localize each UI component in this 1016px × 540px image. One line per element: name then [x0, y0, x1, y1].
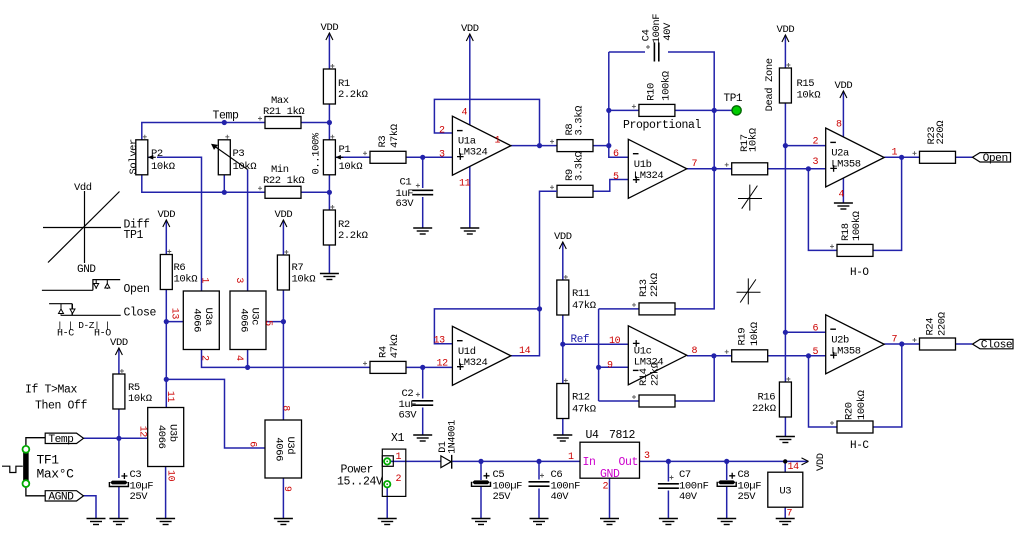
svg-text:GND: GND: [600, 468, 620, 481]
svg-text:2: 2: [396, 474, 402, 485]
svg-text:8: 8: [280, 405, 291, 411]
op-amp U2b: [826, 315, 885, 374]
resistor R11: [557, 280, 569, 315]
op-amp U1a: [452, 116, 511, 175]
capacitor C4: [654, 43, 658, 62]
label R24 220 (vertical): [924, 312, 948, 336]
junction R10 right / TP1 / column: [712, 108, 717, 113]
svg-text:3: 3: [233, 277, 244, 283]
wire U3a pin13 stub: [166, 321, 183, 323]
svg-text:15..24V: 15..24V: [337, 476, 383, 489]
wire U2a output to R23: [884, 156, 919, 158]
svg-text:P3: P3: [233, 148, 245, 160]
ground below U3 pin7: [776, 519, 795, 525]
label C4 100nF 40V (vertical): [641, 14, 674, 44]
svg-text:10: 10: [609, 336, 621, 347]
junction U1b output / R17 / R13 column: [712, 166, 717, 171]
svg-text:4: 4: [839, 190, 845, 201]
wire VDD to U2a pin8: [842, 104, 844, 137]
svg-text:LM358: LM358: [831, 159, 861, 171]
svg-text:R6: R6: [174, 262, 186, 274]
svg-text:8: 8: [692, 346, 698, 357]
wire VDD to R15: [784, 48, 786, 68]
resistor R16: [779, 382, 791, 417]
svg-text:LM358: LM358: [831, 345, 861, 357]
svg-text:10kΩ: 10kΩ: [749, 322, 761, 346]
wire VDD to R6: [165, 233, 167, 255]
wire VDD to R7: [282, 233, 284, 255]
svg-text:220Ω: 220Ω: [937, 312, 949, 336]
resistor R15: [779, 68, 791, 103]
wire U4 GND pin2 to ground: [609, 478, 611, 518]
power VDD above R11: [554, 231, 572, 255]
svg-text:1: 1: [892, 148, 898, 159]
wire U2a pin2 from dead zone tap: [785, 145, 825, 147]
svg-text:3: 3: [439, 149, 445, 160]
junction Temp / R5 / C3: [116, 436, 121, 441]
junction Min row / P3 bottom: [222, 190, 227, 195]
svg-text:12: 12: [437, 359, 449, 370]
svg-text:R22 1kΩ: R22 1kΩ: [263, 175, 304, 187]
svg-text:P2: P2: [151, 148, 163, 160]
svg-text:U3: U3: [779, 486, 791, 498]
wire C3 column: [118, 438, 120, 478]
label R23 220 (vertical): [926, 121, 947, 145]
resistor R2: [323, 210, 335, 245]
wire R11 to Ref to R12: [562, 315, 564, 384]
svg-text:C5: C5: [493, 469, 505, 481]
wire C5 stub: [480, 461, 482, 480]
wire R5 bottom to Temp row: [118, 410, 120, 439]
power VDD above R7: [275, 209, 293, 233]
svg-text:3: 3: [644, 451, 650, 462]
svg-text:C1: C1: [400, 177, 412, 189]
wire AGND flag to ground: [84, 496, 97, 519]
svg-text:22kΩ: 22kΩ: [650, 362, 662, 386]
capacitor C5 (polarized): [472, 473, 491, 487]
ground below R12: [553, 435, 572, 441]
svg-text:220Ω: 220Ω: [935, 121, 947, 145]
wire R23 to Open flag: [956, 156, 973, 158]
junction R10 left / C4 column: [606, 108, 611, 113]
test point TP1: [732, 106, 741, 115]
svg-text:10kΩ: 10kΩ: [233, 161, 257, 173]
resistor R22: [265, 186, 301, 198]
diode D1 1N4001: [441, 455, 452, 469]
label R19 10k (vertical): [736, 322, 761, 346]
annotation Open waveform: [42, 280, 120, 291]
svg-text:U4: U4: [586, 429, 600, 442]
ground below U3b pin10: [156, 519, 175, 525]
svg-text:Open: Open: [983, 153, 1008, 165]
svg-text:3.3kΩ: 3.3kΩ: [573, 151, 585, 181]
svg-text:C7: C7: [679, 469, 691, 481]
wire R7 column to U3d pin8: [282, 290, 284, 420]
ground below R16: [776, 437, 795, 443]
capacitor C2: [412, 401, 433, 405]
op-amp U1d: [452, 326, 511, 385]
resistor R8: [557, 140, 593, 152]
wire U1c output to R19: [687, 355, 732, 357]
wire R9 to U1b pin5: [593, 180, 628, 192]
svg-text:X1: X1: [391, 432, 405, 445]
junction R3 / C1 / U1a pin3: [420, 155, 425, 160]
resistor R18: [837, 244, 873, 256]
junction R6 column / U3b pin11: [164, 377, 169, 382]
wire C7 to ground: [667, 491, 669, 519]
wire C2 bottom to ground: [422, 408, 424, 435]
svg-text:TP1: TP1: [724, 93, 743, 105]
annotation Close waveform: [49, 304, 121, 316]
voltage regulator U4 7812: [580, 442, 640, 478]
svg-text:4066: 4066: [155, 425, 167, 449]
wire C1 junction down: [422, 157, 424, 188]
wire X1 pin1 to D1: [391, 460, 441, 462]
svg-text:7: 7: [692, 159, 698, 170]
wire VDD to R5: [118, 361, 120, 374]
svg-text:H-O: H-O: [850, 267, 869, 279]
svg-text:Ref: Ref: [571, 334, 590, 346]
svg-text:U3b: U3b: [166, 424, 178, 442]
ground below C6: [530, 519, 549, 525]
label R18 100k (vertical): [840, 211, 863, 241]
resistor R5: [113, 374, 125, 409]
label R9 3.3k (vertical): [564, 151, 586, 181]
svg-text:5: 5: [813, 347, 819, 358]
svg-text:9: 9: [281, 486, 292, 492]
svg-text:6: 6: [613, 149, 619, 160]
svg-text:R15: R15: [797, 78, 815, 90]
wire Ref to U1c pin10: [563, 343, 629, 345]
net flag AGND: [45, 491, 83, 504]
svg-text:2: 2: [603, 482, 609, 493]
svg-text:P1: P1: [339, 144, 351, 156]
resistor R19: [732, 350, 768, 362]
svg-text:6: 6: [247, 441, 258, 447]
label R17 10k (vertical): [739, 128, 760, 152]
wire U1a pin11 to ground: [469, 167, 471, 228]
resistor R21: [265, 117, 301, 129]
analog switch U3d (4066): [265, 420, 302, 478]
svg-text:9: 9: [607, 361, 613, 372]
capacitor C6: [529, 482, 550, 486]
svg-text:25V: 25V: [130, 491, 149, 503]
wire C6 stub: [538, 461, 540, 479]
ground below C5: [472, 519, 491, 525]
resistor R3: [370, 151, 406, 163]
svg-text:10kΩ: 10kΩ: [339, 161, 363, 173]
ground below X1: [378, 519, 397, 525]
svg-text:47kΩ: 47kΩ: [389, 335, 401, 359]
power VDD arrow right (rotated): [802, 453, 828, 471]
wire C4 right to right column: [668, 52, 714, 110]
wire U3 pin7 to ground: [784, 507, 786, 519]
svg-text:0..100%: 0..100%: [310, 132, 322, 174]
svg-text:7: 7: [892, 335, 898, 346]
svg-text:10kΩ: 10kΩ: [151, 161, 175, 173]
svg-text:C3: C3: [130, 469, 142, 481]
svg-text:22kΩ: 22kΩ: [752, 403, 776, 415]
svg-text:H-O: H-O: [94, 329, 111, 340]
wire U1d pin13 feedback loop: [434, 309, 539, 344]
wire R19/U2b pin5 column down to R20 loop: [809, 356, 838, 427]
wire U3 pin14 stub: [784, 461, 786, 472]
svg-text:1: 1: [568, 452, 574, 463]
svg-text:47kΩ: 47kΩ: [572, 300, 596, 312]
svg-text:TP1: TP1: [124, 229, 144, 242]
junction Temp row / P3 top: [222, 120, 227, 125]
svg-text:14: 14: [519, 346, 531, 357]
label R8 3.3k (vertical): [564, 106, 586, 136]
svg-text:7812: 7812: [609, 429, 636, 442]
svg-text:4: 4: [233, 355, 244, 361]
junction R4 / C2 / U1d pin12: [420, 365, 425, 370]
ground below AGND: [87, 519, 106, 525]
svg-text:100kΩ: 100kΩ: [856, 390, 868, 420]
resistor R13: [639, 303, 675, 315]
op-amp U1c: [628, 326, 687, 385]
svg-text:11: 11: [459, 179, 471, 190]
resistor R6: [160, 255, 172, 290]
junction R7 column / U3c pin5: [281, 319, 286, 324]
net flag Close: [973, 339, 1014, 351]
svg-text:10kΩ: 10kΩ: [797, 90, 821, 102]
wire R13 right to column: [676, 169, 715, 309]
wire R19 right to U2b pin5: [768, 355, 826, 357]
wire U1d output up to R9: [511, 191, 557, 355]
svg-text:If T>Max: If T>Max: [25, 384, 78, 397]
svg-text:6: 6: [813, 324, 819, 335]
wire R17 right to U2a pin3: [768, 168, 826, 170]
svg-text:R11: R11: [572, 288, 590, 300]
wire U1c pin9 column R13 to R14: [598, 309, 600, 401]
label Solver (vertical): [128, 139, 140, 175]
wire R10 left column up to C4: [608, 52, 610, 146]
junction R19 / U2b pin5 / R20: [806, 353, 811, 358]
svg-text:LM324: LM324: [458, 147, 488, 159]
label R20 100k (vertical): [843, 390, 868, 420]
svg-text:Proportional: Proportional: [623, 119, 702, 132]
wire C8 stub: [726, 461, 728, 480]
wire U3b pin10 to ground: [165, 467, 167, 519]
svg-text:100kΩ: 100kΩ: [851, 211, 863, 241]
wire Temp row P2 top to P3 top to R21: [142, 123, 330, 141]
wire VDD to U1a pin4: [469, 47, 471, 125]
wire U1a output to R8: [511, 145, 557, 147]
svg-text:2: 2: [813, 137, 819, 148]
junction R17 / U2a pin3 / R18: [806, 166, 811, 171]
svg-text:5: 5: [613, 172, 619, 183]
svg-text:12: 12: [137, 426, 148, 438]
svg-text:R7: R7: [292, 262, 304, 274]
label R10 100k (vertical): [646, 71, 673, 101]
resistor R20: [837, 421, 873, 433]
wire R24 to Close flag: [956, 343, 973, 345]
svg-text:2: 2: [439, 126, 445, 137]
svg-text:4066: 4066: [191, 308, 203, 332]
junction C6 on rail: [536, 459, 541, 464]
svg-text:R19: R19: [736, 328, 748, 346]
wire R3 to C1 node to U1a pin3: [406, 156, 452, 158]
svg-text:R10: R10: [646, 83, 658, 101]
analog switch U3b (4066): [148, 408, 184, 467]
ground below C8: [717, 519, 736, 525]
svg-text:100kΩ: 100kΩ: [661, 71, 673, 101]
wire U2a pin4 to ground: [842, 177, 844, 203]
junction U3 pin14 on VDD rail: [783, 459, 787, 463]
resistor R17: [732, 163, 768, 175]
svg-text:2: 2: [199, 355, 210, 361]
wire C3 bottom to ground: [118, 487, 120, 519]
svg-text:1N4001: 1N4001: [447, 420, 458, 454]
svg-text:R24: R24: [924, 318, 936, 336]
svg-text:LM324: LM324: [458, 357, 488, 369]
wire P1 wiper to R3: [335, 156, 370, 158]
svg-text:LM324: LM324: [634, 170, 664, 182]
svg-text:R21 1kΩ: R21 1kΩ: [263, 106, 304, 118]
svg-text:R14: R14: [638, 368, 650, 386]
wire R2 bottom to ground: [328, 245, 330, 273]
power VDD above R1: [321, 22, 339, 46]
junction U2b output / R20 / R24: [899, 341, 904, 346]
junction U1c output / R19 / R14: [711, 353, 716, 358]
annotation transfer-function graph axes: [43, 191, 121, 263]
wire U3c pin5 stub: [266, 321, 284, 323]
svg-text:4066: 4066: [237, 308, 249, 332]
ground below C3: [109, 519, 128, 525]
svg-text:C6: C6: [551, 469, 563, 481]
svg-text:2.2kΩ: 2.2kΩ: [338, 89, 368, 101]
svg-text:R3: R3: [377, 136, 389, 148]
wire U2b pin6 from dead zone tap: [785, 331, 825, 333]
svg-text:10kΩ: 10kΩ: [747, 128, 759, 152]
svg-text:2.2kΩ: 2.2kΩ: [338, 230, 368, 242]
label R3 47k (vertical): [377, 124, 401, 148]
wire C4 left: [609, 51, 645, 53]
wire C1 bottom to ground: [422, 197, 424, 228]
svg-text:4: 4: [462, 108, 468, 119]
junction U1a output / feedback / R8: [537, 143, 542, 148]
svg-text:25V: 25V: [738, 491, 757, 503]
svg-text:63V: 63V: [399, 410, 418, 422]
resistor R23: [920, 151, 956, 163]
svg-text:47kΩ: 47kΩ: [389, 124, 401, 148]
capacitor C7: [658, 484, 679, 488]
wire R14 left: [599, 400, 639, 402]
potentiometer P2: [136, 140, 156, 175]
junction U2a output / R18 / R23: [899, 155, 904, 160]
wire R4 to C2 node to U1d pin12: [406, 366, 452, 368]
wire TF1 top to Temp flag (black): [26, 438, 45, 448]
wire R6 column U3a pin13 U3b pin11: [165, 289, 167, 408]
junction dead zone / U2b pin6 / R16: [783, 330, 788, 335]
svg-text:Close: Close: [124, 307, 157, 320]
IC U3 power block: [768, 472, 803, 507]
capacitor C8 (polarized): [717, 473, 736, 487]
ground below U1a pin11: [460, 228, 479, 234]
svg-text:10: 10: [164, 470, 175, 482]
junction C7 on rail: [666, 459, 671, 464]
resistor R1: [323, 69, 335, 104]
wire U2a pin3 column down to R18 loop: [808, 169, 837, 251]
ground below R2: [320, 274, 339, 280]
svg-text:Vdd: Vdd: [74, 182, 92, 194]
svg-text:Temp: Temp: [48, 434, 74, 446]
ground below U2a pin4: [834, 203, 853, 209]
svg-text:R16: R16: [758, 392, 776, 404]
svg-text:8: 8: [836, 120, 842, 131]
wire P2 wiper stub: [142, 156, 151, 158]
capacitor C1: [412, 190, 433, 194]
svg-text:VDD: VDD: [815, 453, 827, 471]
wire U3b pin11 junction to U3d pin6: [166, 379, 265, 448]
svg-text:22kΩ: 22kΩ: [649, 273, 661, 297]
label R4 47k (vertical): [377, 335, 401, 359]
junction R6 column / U3a pin13: [164, 319, 169, 324]
junction C8 on rail: [724, 459, 729, 464]
svg-text:13: 13: [434, 336, 446, 347]
junction dead zone / U2a pin2: [783, 143, 788, 148]
wire R18 right to output column: [873, 157, 902, 250]
svg-text:U3a: U3a: [202, 308, 214, 326]
thermal fuse TF1: [2, 446, 29, 487]
junction U3a pin2 / U3c pin4 / R4 wire: [245, 365, 250, 370]
wire R10 left junction to R10: [609, 109, 640, 111]
svg-text:U3d: U3d: [284, 437, 296, 455]
svg-text:40V: 40V: [662, 22, 674, 41]
annotation crossed-graph symbol upper: [738, 185, 762, 211]
svg-text:10kΩ: 10kΩ: [174, 274, 198, 286]
wire U3c pin4 stub to junction: [247, 350, 249, 368]
net flag Open: [973, 153, 1011, 165]
junction R8 / U1b pin6 / R10 column: [606, 143, 611, 148]
wire Min row P2 bottom to R22 to P1 bottom: [142, 175, 330, 192]
junction U1c pin9 / R13 / R14: [596, 365, 601, 370]
wire column down to U1b output: [713, 110, 715, 168]
resistor R7: [277, 255, 289, 290]
svg-text:14: 14: [788, 462, 800, 473]
resistor R14: [639, 395, 675, 407]
svg-text:1: 1: [396, 452, 402, 463]
svg-text:Open: Open: [124, 283, 150, 296]
svg-text:Out: Out: [619, 456, 639, 469]
wire U3a pin2 / U3c pin4 row to R4: [202, 350, 371, 368]
wire D1 to U4 In: [452, 460, 580, 462]
power VDD above U1a: [461, 23, 479, 47]
svg-text:GND: GND: [77, 264, 96, 276]
wire dead zone column R15 to R16: [784, 104, 786, 382]
resistor R10: [639, 104, 675, 116]
svg-text:C8: C8: [738, 469, 750, 481]
power VDD above R5: [110, 337, 128, 361]
resistor R4: [370, 361, 406, 373]
svg-text:AGND: AGND: [48, 491, 74, 503]
svg-text:47kΩ: 47kΩ: [572, 404, 596, 416]
svg-text:TF1: TF1: [37, 453, 60, 468]
svg-text:Then Off: Then Off: [35, 400, 88, 413]
wire R12 bottom to ground: [562, 419, 564, 435]
svg-text:10kΩ: 10kΩ: [128, 393, 152, 405]
label 0..100% (vertical): [310, 132, 322, 174]
junction C5 on rail: [478, 459, 483, 464]
resistor R9: [557, 185, 593, 197]
label R14 22k (vertical): [638, 362, 662, 386]
svg-text:1: 1: [495, 136, 501, 147]
label R13 22k (vertical): [638, 273, 661, 297]
net flag Temp: [45, 433, 83, 446]
svg-text:1: 1: [199, 277, 210, 283]
wire P3 bottom stub: [223, 140, 225, 192]
